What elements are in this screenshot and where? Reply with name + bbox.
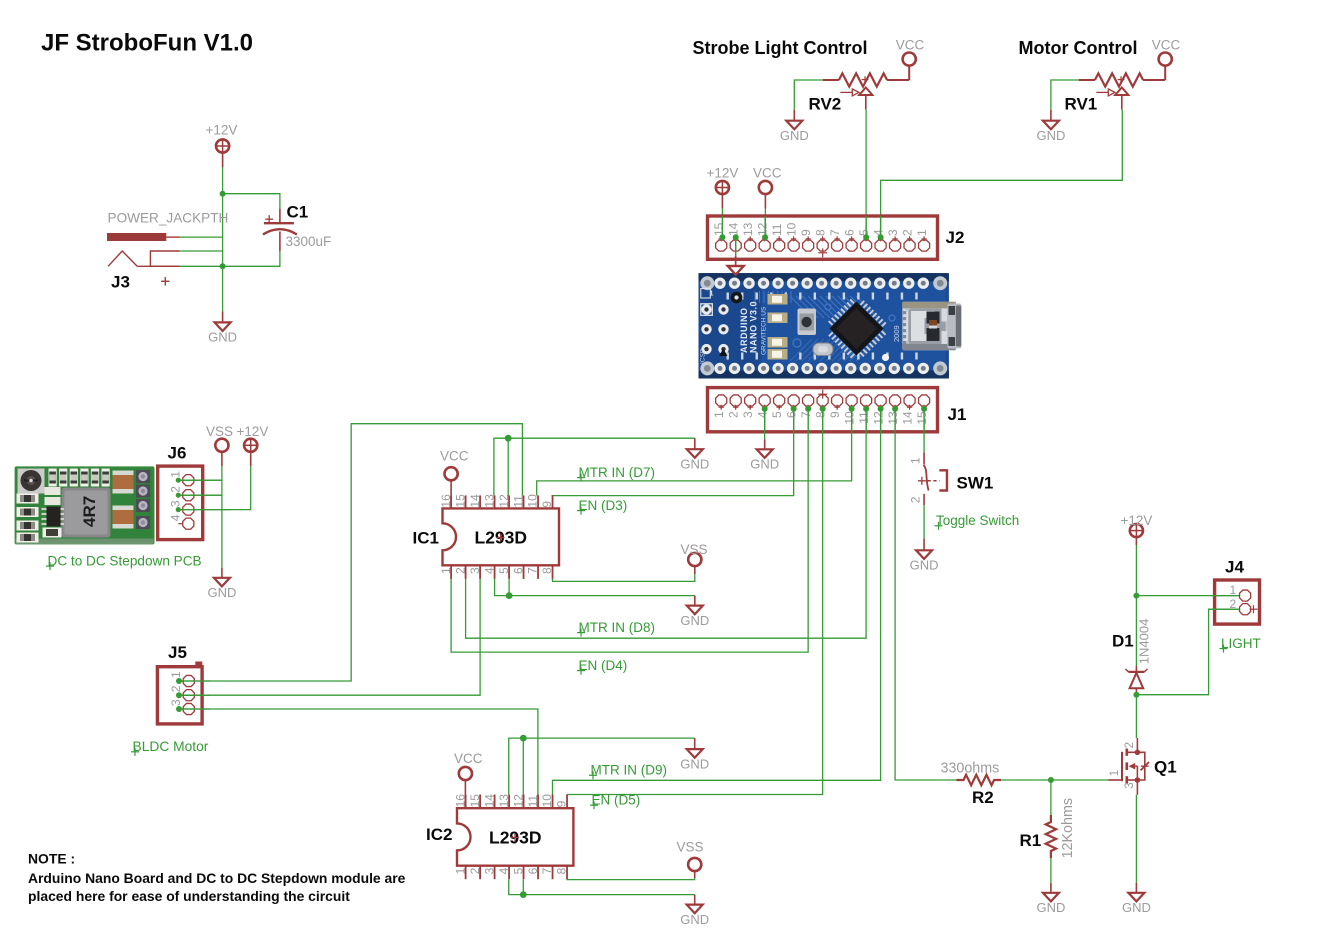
svg-text:GND: GND — [910, 558, 939, 573]
ground GND (J6) — [207, 568, 236, 600]
potentiometer RV2 — [823, 73, 910, 109]
svg-text:15: 15 — [712, 222, 726, 236]
svg-text:ICSP: ICSP — [700, 349, 707, 364]
label RV2 — [809, 95, 842, 114]
svg-text:3: 3 — [1124, 782, 1136, 788]
svg-text:EN (D5): EN (D5) — [592, 793, 641, 808]
svg-text:12: 12 — [871, 411, 885, 425]
svg-text:VSS: VSS — [681, 542, 708, 557]
ground GND (SW1) — [910, 538, 939, 572]
svg-text:4: 4 — [871, 229, 885, 236]
wire J5 pin3 to IC2 pin11 — [179, 709, 538, 795]
svg-text:10: 10 — [526, 494, 540, 508]
net label BLDC Motor — [131, 739, 209, 756]
svg-text:JF StroboFun V1.0: JF StroboFun V1.0 — [41, 30, 253, 57]
wire RV1 right to VCC — [1164, 67, 1166, 81]
svg-text:RV2: RV2 — [809, 95, 842, 114]
junction IC1 pin12 gnd — [505, 435, 512, 442]
power symbol VCC (RV1) — [1152, 38, 1181, 66]
junction J1 pin 10 — [849, 406, 855, 412]
svg-text:15: 15 — [453, 494, 467, 508]
wire overlay J1 pin 11 — [865, 409, 867, 434]
wire overlay J6 pin2 — [178, 494, 222, 496]
wire IC2 pins 4,5 to GND — [509, 879, 695, 894]
junction J1 pin 13 — [892, 406, 898, 412]
junction J5 pin at y=709.0 — [176, 706, 182, 712]
junction J1 pin 6 — [791, 406, 797, 412]
svg-text:Q1: Q1 — [1154, 757, 1177, 776]
svg-text:12: 12 — [511, 794, 525, 808]
power symbol VCC (RV2) — [896, 38, 925, 66]
wire overlay J5 pin2 — [179, 694, 210, 696]
svg-text:MTR IN (D8): MTR IN (D8) — [579, 620, 656, 635]
power symbol +12V (above J2) — [707, 166, 739, 209]
wire IC1 pins 4,5 to GND — [495, 579, 695, 596]
svg-text:1: 1 — [439, 567, 453, 574]
svg-text:POWER_JACKPTH: POWER_JACKPTH — [108, 210, 229, 225]
wire RV2 wiper to J2 pin5 — [865, 110, 867, 238]
svg-text:J4: J4 — [1225, 558, 1244, 577]
connector J5 pin numbers — [169, 671, 183, 706]
wire IC1 pin8 to VSS — [553, 574, 695, 581]
svg-text:3: 3 — [886, 229, 900, 236]
svg-text:1: 1 — [1230, 583, 1237, 597]
svg-text:VSS: VSS — [677, 839, 704, 854]
svg-text:J6: J6 — [168, 444, 187, 463]
junction J1 pin 11 — [863, 406, 869, 412]
svg-text:1: 1 — [169, 671, 183, 678]
junction R1 top — [1048, 777, 1054, 783]
svg-text:5: 5 — [770, 411, 784, 418]
svg-text:Arduino Nano Board and DC to D: Arduino Nano Board and DC to DC Stepdown… — [28, 870, 406, 886]
svg-text:5: 5 — [511, 867, 525, 874]
svg-text:6: 6 — [842, 229, 856, 236]
svg-text:4R7: 4R7 — [80, 496, 99, 527]
power symbol +12V (J3 input) — [206, 123, 238, 168]
svg-text:IC1: IC1 — [413, 529, 439, 548]
svg-text:+12V: +12V — [707, 166, 739, 181]
ground GND (R1) — [1036, 883, 1065, 915]
svg-text:J5: J5 — [168, 643, 187, 662]
svg-text:GND: GND — [750, 457, 779, 472]
wire +12V to J2 pin15 — [721, 209, 723, 238]
svg-text:ARDUINO: ARDUINO — [739, 308, 749, 354]
Q1 pin numbers — [1109, 742, 1136, 789]
svg-text:12: 12 — [497, 494, 511, 508]
svg-text:3: 3 — [482, 867, 496, 874]
connector J1 body — [708, 388, 938, 432]
net label LIGHT — [1220, 636, 1261, 653]
wire overlay J2 pin14 gnd — [735, 237, 737, 256]
svg-text:7: 7 — [828, 229, 842, 236]
svg-text:9: 9 — [828, 411, 842, 418]
connector J5 pins 1..3 — [179, 675, 196, 714]
label J3 — [111, 273, 130, 292]
connector J3 power jack tip bar — [107, 233, 180, 241]
power symbol VSS (J6) — [206, 424, 233, 466]
wire J5 pin1 to IC1 pin11 — [179, 424, 522, 681]
value 330ohms — [941, 761, 1000, 777]
svg-text:GND: GND — [208, 330, 237, 345]
power symbol +12V (J6) — [237, 424, 269, 466]
junction J1 pin 4 — [762, 406, 768, 412]
svg-text:2009: 2009 — [892, 325, 901, 342]
svg-text:8: 8 — [813, 411, 827, 418]
wire SW1 pin2 to GND — [923, 505, 925, 538]
resistor R1 — [1046, 815, 1056, 858]
svg-text:J2: J2 — [946, 228, 965, 247]
wire R1 bottom to GND — [1050, 858, 1052, 883]
wire overlay J5 pin1 — [179, 680, 210, 682]
wire J1 pin13 to R2 — [895, 409, 956, 780]
wire IC2 pins 13,12 to GND — [509, 738, 695, 794]
switch SW1 pin numbers — [908, 457, 922, 503]
net label MTR IN (D8) — [577, 620, 655, 637]
wire overlay J6 pin1 — [178, 479, 222, 481]
junction IC2 pin12 gnd — [520, 735, 527, 742]
wire net EN (D3) — [552, 409, 794, 496]
svg-text:GND: GND — [680, 756, 709, 771]
power symbol +12V (lamp rail) — [1121, 513, 1153, 545]
svg-text:4: 4 — [755, 411, 769, 418]
wire Q1 source to GND — [1135, 795, 1137, 883]
svg-text:GND: GND — [680, 912, 709, 927]
junction D1 top — [1133, 593, 1139, 599]
svg-text:13: 13 — [741, 222, 755, 236]
label D1 — [1112, 631, 1134, 650]
svg-text:1: 1 — [710, 291, 714, 298]
label IC2 — [426, 825, 452, 844]
wire overlay J1 pin 4 — [764, 409, 766, 434]
origin cross J1 (pin 8) — [818, 390, 827, 399]
junction J1 pin 8 — [820, 406, 826, 412]
label J2 — [946, 228, 965, 247]
svg-text:RV1: RV1 — [1065, 95, 1098, 114]
svg-text:J3: J3 — [111, 273, 130, 292]
connector J4 body — [1215, 580, 1260, 624]
svg-text:VCC: VCC — [440, 449, 469, 464]
wire net EN (D5) — [567, 409, 823, 795]
connector J2 body — [708, 216, 938, 259]
svg-text:1N4004: 1N4004 — [1137, 619, 1152, 665]
svg-text:+12V: +12V — [206, 123, 238, 138]
label J5 — [168, 643, 187, 662]
svg-text:3: 3 — [169, 699, 183, 706]
net label EN (D3) — [577, 498, 627, 515]
wire to C1 top — [223, 194, 280, 209]
power symbol VCC (IC1) — [440, 449, 469, 509]
wire overlay J6 pin3 — [178, 509, 230, 511]
svg-text:10: 10 — [842, 411, 856, 425]
svg-text:14: 14 — [900, 411, 914, 425]
svg-text:2: 2 — [468, 867, 482, 874]
potentiometer RV1 — [1079, 73, 1166, 109]
wire RV1 wiper to J2 pin4 — [881, 110, 1123, 238]
net label MTR IN (D9) — [589, 763, 667, 780]
IC U2 L293D body (IC2) — [457, 795, 573, 880]
svg-text:Motor Control: Motor Control — [1019, 38, 1138, 58]
connector J4 pin numbers — [1230, 583, 1237, 611]
value L293D (IC2) — [489, 828, 542, 848]
svg-text:15: 15 — [468, 794, 482, 808]
svg-text:2: 2 — [726, 411, 740, 418]
ground GND (RV1) — [1036, 110, 1065, 143]
ground GND (J1 pin4) — [750, 439, 779, 471]
label R1 — [1020, 831, 1042, 850]
svg-text:3: 3 — [468, 567, 482, 574]
ground GND (J2 pin14) redraw over photo — [728, 256, 744, 275]
wire overlay J1 pin 8 — [822, 409, 824, 434]
svg-text:DC to DC Stepdown PCB: DC to DC Stepdown PCB — [48, 554, 202, 569]
net label Toggle Switch — [935, 513, 1020, 530]
value 1N4004 — [1137, 619, 1152, 665]
svg-text:8: 8 — [540, 567, 554, 574]
svg-text:5: 5 — [857, 229, 871, 236]
svg-text:8: 8 — [555, 867, 569, 874]
junction C1 bottom — [220, 263, 226, 269]
svg-text:VSS: VSS — [206, 424, 233, 439]
label POWER_JACKPTH — [108, 210, 229, 225]
svg-text:GND: GND — [1036, 900, 1065, 915]
ground GND (IC1 top) — [680, 438, 709, 471]
net label MTR IN (D7) — [577, 465, 655, 482]
header Strobe Light Control — [693, 38, 868, 58]
svg-text:7: 7 — [526, 567, 540, 574]
value L293D (IC1) — [475, 528, 528, 548]
wire IC1 pin3 to J5 pin2 — [179, 579, 480, 695]
svg-text:7: 7 — [799, 411, 813, 418]
ground GND (J2 pin14, no label) — [728, 256, 744, 275]
polarity mark + (J3) — [161, 277, 169, 285]
svg-text:NOTE :: NOTE : — [28, 851, 75, 867]
wire C1 bottom — [223, 251, 280, 266]
diode D1 1N4004 — [1125, 666, 1147, 695]
wire to J4 pin1 — [1136, 595, 1239, 597]
label SW1 — [957, 474, 994, 493]
Arduino Nano board (photo) — [699, 273, 962, 378]
label RV1 — [1065, 95, 1098, 114]
power symbol VCC (IC2) — [454, 751, 483, 808]
svg-text:+12V: +12V — [1121, 513, 1153, 528]
junction J1 pin 7 — [805, 406, 811, 412]
svg-text:11: 11 — [857, 411, 871, 424]
svg-text:9: 9 — [540, 501, 554, 508]
svg-text:J1: J1 — [948, 405, 967, 424]
wire overlay J1 pin 12 — [880, 409, 882, 434]
wire J2 pin14 to GND — [735, 237, 737, 256]
svg-text:GND: GND — [1122, 900, 1151, 915]
svg-text:SW1: SW1 — [957, 474, 994, 493]
svg-text:10: 10 — [540, 794, 554, 808]
label J1 — [948, 405, 967, 424]
wire IC1 pins 13,12 to GND — [494, 438, 695, 495]
wire lamp rail down — [1135, 545, 1137, 666]
connector J2 pin numbers — [712, 222, 929, 236]
wire net MTR IN (D8) — [466, 409, 866, 638]
connector J4 pins 1,2 — [1239, 590, 1257, 615]
svg-text:11: 11 — [511, 495, 525, 508]
wire +12V vertical rail — [222, 167, 224, 311]
svg-text:14: 14 — [482, 794, 496, 808]
ground GND (power input) — [208, 311, 237, 344]
ground GND (RV2) — [780, 110, 809, 143]
wire overlay J2 pin15 — [721, 216, 723, 237]
transistor Q1 (N-MOSFET) — [1122, 738, 1149, 795]
svg-text:9: 9 — [799, 229, 813, 236]
net label DC to DC Stepdown PCB — [46, 554, 202, 571]
svg-text:VCC: VCC — [896, 38, 925, 53]
svg-text:3300uF: 3300uF — [286, 234, 332, 249]
svg-text:EN (D3): EN (D3) — [579, 498, 628, 513]
wire net MTR IN (D9) — [553, 409, 881, 795]
label J4 — [1225, 558, 1244, 577]
power symbol VSS (IC2) — [677, 839, 704, 878]
label C1 — [287, 203, 309, 222]
svg-text:GRAVITECH.US: GRAVITECH.US — [761, 306, 768, 355]
wire overlay J2 pin5 — [865, 216, 867, 237]
IC U1 L293D body (IC1) — [443, 495, 560, 579]
connector J2 pins 15..1 — [716, 236, 930, 251]
svg-text:MTR IN (D9): MTR IN (D9) — [591, 763, 668, 778]
wire J6 pin2 — [176, 493, 222, 498]
junction C1 top — [220, 191, 226, 197]
svg-text:2: 2 — [908, 496, 922, 503]
svg-text:VCC: VCC — [753, 166, 782, 181]
svg-text:BLDC Motor: BLDC Motor — [133, 739, 209, 754]
wire sleeve to rail — [180, 251, 223, 266]
svg-text:2: 2 — [900, 229, 914, 236]
wire J6 pin1 — [176, 478, 222, 483]
svg-text:7: 7 — [540, 867, 554, 874]
wire RV1 left to GND — [1051, 80, 1079, 110]
svg-text:13: 13 — [497, 794, 511, 808]
ground GND (IC2 top) — [680, 738, 709, 771]
connector J6 pin numbers — [169, 471, 183, 522]
connector J1 pin numbers — [712, 411, 929, 425]
svg-text:R2: R2 — [972, 788, 994, 807]
svg-text:14: 14 — [726, 222, 740, 236]
ground GND (Q1 source) — [1122, 883, 1151, 915]
svg-text:13: 13 — [482, 494, 496, 508]
svg-text:Strobe Light Control: Strobe Light Control — [693, 38, 868, 58]
label J6 — [168, 444, 187, 463]
wire overlay J4 pin2 — [1212, 608, 1239, 610]
wire overlay J1 pin 6 — [793, 409, 795, 434]
wire J1 pin4 to GND — [764, 409, 766, 439]
svg-text:GND: GND — [780, 128, 809, 143]
svg-text:1: 1 — [915, 229, 929, 236]
svg-text:2: 2 — [169, 486, 183, 493]
junction J2 pin 5 — [863, 234, 869, 240]
value 12Kohms — [1060, 798, 1076, 858]
svg-text:13: 13 — [886, 411, 900, 425]
switch SW1 — [918, 452, 947, 505]
svg-text:5: 5 — [497, 567, 511, 574]
wire overlay J1 pin 13 — [894, 409, 896, 434]
origin cross J2 (pin 8) — [818, 248, 827, 257]
svg-text:9: 9 — [555, 800, 569, 807]
svg-text:GND: GND — [680, 456, 709, 471]
svg-text:1: 1 — [453, 867, 467, 874]
wire overlay J4 pin1 — [1212, 595, 1239, 597]
svg-text:Toggle Switch: Toggle Switch — [936, 513, 1019, 528]
svg-text:1: 1 — [169, 471, 183, 478]
wire net EN (D4) — [451, 409, 808, 652]
net label EN (D4) — [577, 658, 627, 675]
svg-text:3: 3 — [741, 411, 755, 418]
DC to DC stepdown module (photo) — [15, 466, 155, 544]
net label EN (D5) — [590, 793, 640, 810]
wire RV2 left to GND — [794, 80, 822, 110]
svg-text:14: 14 — [468, 494, 482, 508]
svg-text:4: 4 — [169, 514, 183, 521]
svg-text:2: 2 — [1124, 742, 1136, 748]
power symbol VCC (above J2) — [753, 166, 782, 209]
svg-text:IC2: IC2 — [426, 825, 452, 844]
wire R2 to Q1 gate — [1001, 779, 1122, 781]
wire RV2 right to VCC — [908, 67, 910, 81]
wire J1 pin15 to SW1 — [923, 409, 925, 453]
wire net MTR IN (D7) — [537, 409, 852, 496]
junction IC1 pin5 gnd — [506, 592, 513, 599]
wire overlay J2 pin12 — [764, 216, 766, 237]
svg-text:1: 1 — [712, 411, 726, 418]
svg-text:2: 2 — [169, 685, 183, 692]
svg-text:4: 4 — [482, 567, 496, 574]
svg-text:MTR IN (D7): MTR IN (D7) — [579, 465, 656, 480]
label R2 — [972, 788, 994, 807]
wire VCC to J2 pin12 — [764, 209, 766, 238]
svg-text:330ohms: 330ohms — [941, 761, 1000, 777]
wire overlay J2 pin4 — [880, 216, 882, 237]
svg-text:R1: R1 — [1020, 831, 1042, 850]
junction J5 pin at y=681.0 — [176, 678, 182, 684]
junction J2 pin 15 — [719, 234, 725, 240]
junction J2 pin 4 — [878, 234, 884, 240]
label Q1 — [1154, 757, 1177, 776]
wire J4 pin2 to D1 bottom — [1136, 609, 1239, 695]
wire overlay J1 pin 10 — [851, 409, 853, 434]
svg-text:3: 3 — [169, 500, 183, 507]
junction J1 pin 12 — [878, 406, 884, 412]
IC2 pin numbers — [453, 794, 568, 875]
ground GND (IC2 bottom) — [680, 895, 709, 927]
svg-text:NANO V3.0: NANO V3.0 — [749, 301, 759, 353]
connector J6 body — [158, 466, 203, 539]
junction J2 pin 12 — [762, 234, 768, 240]
junction IC2 pin5 gnd — [520, 891, 527, 898]
wire IC2 pin8 to VSS — [567, 878, 695, 880]
header Motor Control — [1019, 38, 1138, 58]
connector J6 pins 1..4 — [178, 475, 194, 530]
junction J1 pin 15 — [921, 406, 927, 412]
svg-text:10: 10 — [784, 222, 798, 236]
wire VSS rail to J6 — [221, 466, 223, 568]
value 3300uF — [286, 234, 332, 249]
connector J1 pins 1..15 — [716, 395, 930, 410]
svg-text:VCC: VCC — [1152, 38, 1181, 53]
svg-text:C1: C1 — [287, 203, 309, 222]
svg-text:GND: GND — [207, 585, 236, 600]
svg-text:11: 11 — [770, 223, 784, 236]
svg-text:6: 6 — [784, 411, 798, 418]
svg-text:GND: GND — [680, 613, 709, 628]
svg-text:11: 11 — [526, 795, 540, 808]
svg-text:GND: GND — [1036, 128, 1065, 143]
svg-text:12Kohms: 12Kohms — [1060, 798, 1076, 858]
svg-text:8: 8 — [813, 229, 827, 236]
svg-text:D1: D1 — [1112, 631, 1134, 650]
